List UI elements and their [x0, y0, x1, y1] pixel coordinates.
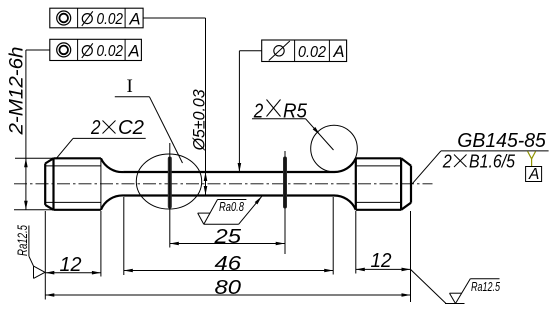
- svg-text:2: 2: [442, 151, 452, 172]
- svg-text:80: 80: [215, 277, 242, 299]
- svg-text:0.02: 0.02: [97, 11, 124, 28]
- svg-text:2: 2: [253, 101, 263, 123]
- svg-text:B1.6/5: B1.6/5: [469, 151, 516, 172]
- svg-text:2: 2: [90, 117, 100, 139]
- svg-text:A: A: [528, 166, 539, 183]
- svg-text:Ø5±0.03: Ø5±0.03: [190, 89, 209, 151]
- svg-text:12: 12: [371, 250, 392, 272]
- svg-text:46: 46: [215, 253, 243, 275]
- svg-text:A: A: [128, 42, 140, 60]
- svg-text:0.02: 0.02: [97, 43, 124, 60]
- svg-text:I: I: [127, 76, 133, 97]
- svg-text:Ra0.8: Ra0.8: [219, 199, 245, 214]
- svg-text:R5: R5: [283, 101, 308, 123]
- svg-text:A: A: [333, 43, 345, 61]
- svg-text:Ra12.5: Ra12.5: [15, 225, 30, 256]
- svg-text:25: 25: [213, 226, 242, 248]
- svg-text:A: A: [129, 10, 141, 28]
- svg-text:0.02: 0.02: [298, 44, 326, 61]
- svg-text:Ra12.5: Ra12.5: [471, 279, 501, 294]
- svg-text:GB145-85: GB145-85: [457, 130, 546, 152]
- svg-text:C2: C2: [118, 117, 144, 139]
- svg-text:2-M12-6h: 2-M12-6h: [7, 47, 28, 136]
- svg-text:12: 12: [60, 254, 82, 276]
